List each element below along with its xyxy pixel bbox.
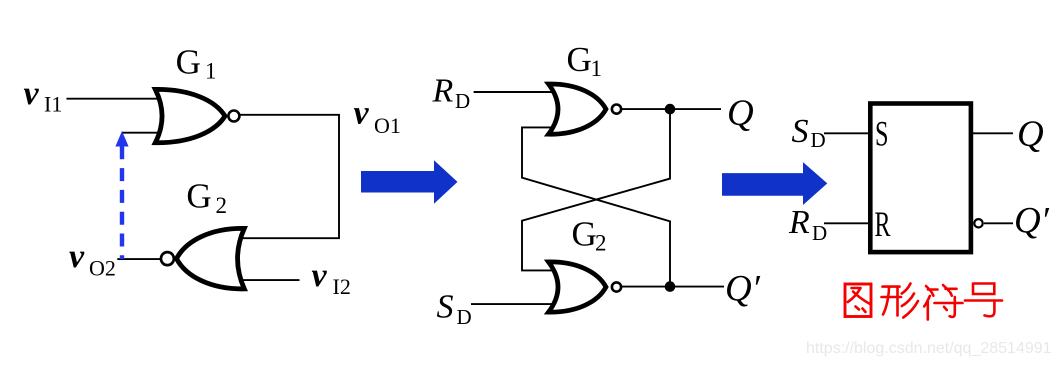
svg-text:G: G xyxy=(567,40,592,79)
svg-text:Q′: Q′ xyxy=(725,268,761,309)
label vI1 xyxy=(24,75,63,117)
SR latch box U1 xyxy=(870,104,971,253)
wire G2 output to vO2 xyxy=(117,258,161,260)
wire RD to R xyxy=(824,222,872,224)
svg-text:R: R xyxy=(875,204,891,244)
svg-text:G: G xyxy=(176,43,201,82)
svg-text:1: 1 xyxy=(591,56,603,81)
svg-text:S: S xyxy=(792,113,809,150)
svg-text:G: G xyxy=(186,177,211,216)
label vO2 xyxy=(69,238,116,281)
label RD (right) xyxy=(788,204,827,245)
svg-text:O2: O2 xyxy=(89,256,116,281)
svg-text:R: R xyxy=(788,204,810,241)
wire G1 output to G2 upper input xyxy=(240,115,339,238)
wire SD to S xyxy=(824,132,872,134)
svg-text:v: v xyxy=(354,94,370,131)
wire G1 output to Q xyxy=(622,108,722,110)
char 形 xyxy=(882,284,919,318)
char 符 xyxy=(924,285,962,320)
label G2 xyxy=(186,177,227,218)
svg-text:2: 2 xyxy=(595,231,607,256)
label SD xyxy=(437,289,472,330)
wire G2 output to Q' xyxy=(622,286,725,288)
label G1 xyxy=(176,43,217,84)
label SD (right) xyxy=(792,113,826,152)
char 号 xyxy=(965,284,1002,317)
wire SD to G2 xyxy=(471,303,558,305)
block arrow 1 xyxy=(361,160,458,204)
NOR gate G1 xyxy=(155,89,239,142)
NOR gate G2 (mirrored, points left) xyxy=(161,228,244,289)
svg-text:I1: I1 xyxy=(44,92,62,117)
svg-text:D: D xyxy=(455,89,470,113)
wire RD to G1 xyxy=(474,91,558,93)
label vO1 xyxy=(354,94,401,138)
NOR gate G2 (middle) xyxy=(549,262,622,312)
label RD xyxy=(432,72,471,113)
NOR gate G1 (middle) xyxy=(549,84,622,134)
svg-text:D: D xyxy=(811,128,826,152)
svg-text:2: 2 xyxy=(216,193,228,218)
wire Q junction cross down to G2 top input xyxy=(522,109,670,270)
svg-text:I2: I2 xyxy=(333,274,351,299)
svg-text:Q′: Q′ xyxy=(1014,200,1050,241)
svg-text:Q: Q xyxy=(1017,114,1044,155)
svg-text:D: D xyxy=(812,221,827,245)
junction dot Q' xyxy=(665,281,676,292)
svg-text:Q: Q xyxy=(727,93,754,134)
svg-text:https://blog.csdn.net/qq_28514: https://blog.csdn.net/qq_28514991 xyxy=(806,340,1052,357)
wire vI2 to G2 lower input xyxy=(242,279,300,281)
svg-text:S: S xyxy=(437,289,454,326)
bubble on Q' output xyxy=(974,219,982,227)
svg-text:v: v xyxy=(24,75,40,112)
wire G1 lower input xyxy=(122,132,163,134)
svg-text:S: S xyxy=(875,113,889,153)
wire vI1 to G1 top input xyxy=(67,98,163,100)
red caption 图形符号 drawn as strokes xyxy=(845,284,1002,320)
char 图 xyxy=(845,284,871,317)
wire G1 lower input from Q' cross xyxy=(522,127,670,286)
label G2 (middle) xyxy=(572,214,607,255)
label G1 (middle) xyxy=(567,40,603,81)
blue dashed feedback arrow xyxy=(115,131,128,259)
svg-text:v: v xyxy=(312,257,328,294)
label vI2 xyxy=(312,257,351,299)
svg-text:1: 1 xyxy=(205,59,217,84)
block arrow 2 xyxy=(722,162,827,205)
wire Q' output xyxy=(984,222,1013,224)
svg-text:O1: O1 xyxy=(374,113,401,138)
svg-text:G: G xyxy=(572,214,597,253)
junction dot Q xyxy=(665,104,676,115)
svg-text:R: R xyxy=(432,72,454,109)
svg-text:D: D xyxy=(457,305,472,329)
wire Q output xyxy=(973,132,1013,134)
svg-text:v: v xyxy=(69,238,85,275)
